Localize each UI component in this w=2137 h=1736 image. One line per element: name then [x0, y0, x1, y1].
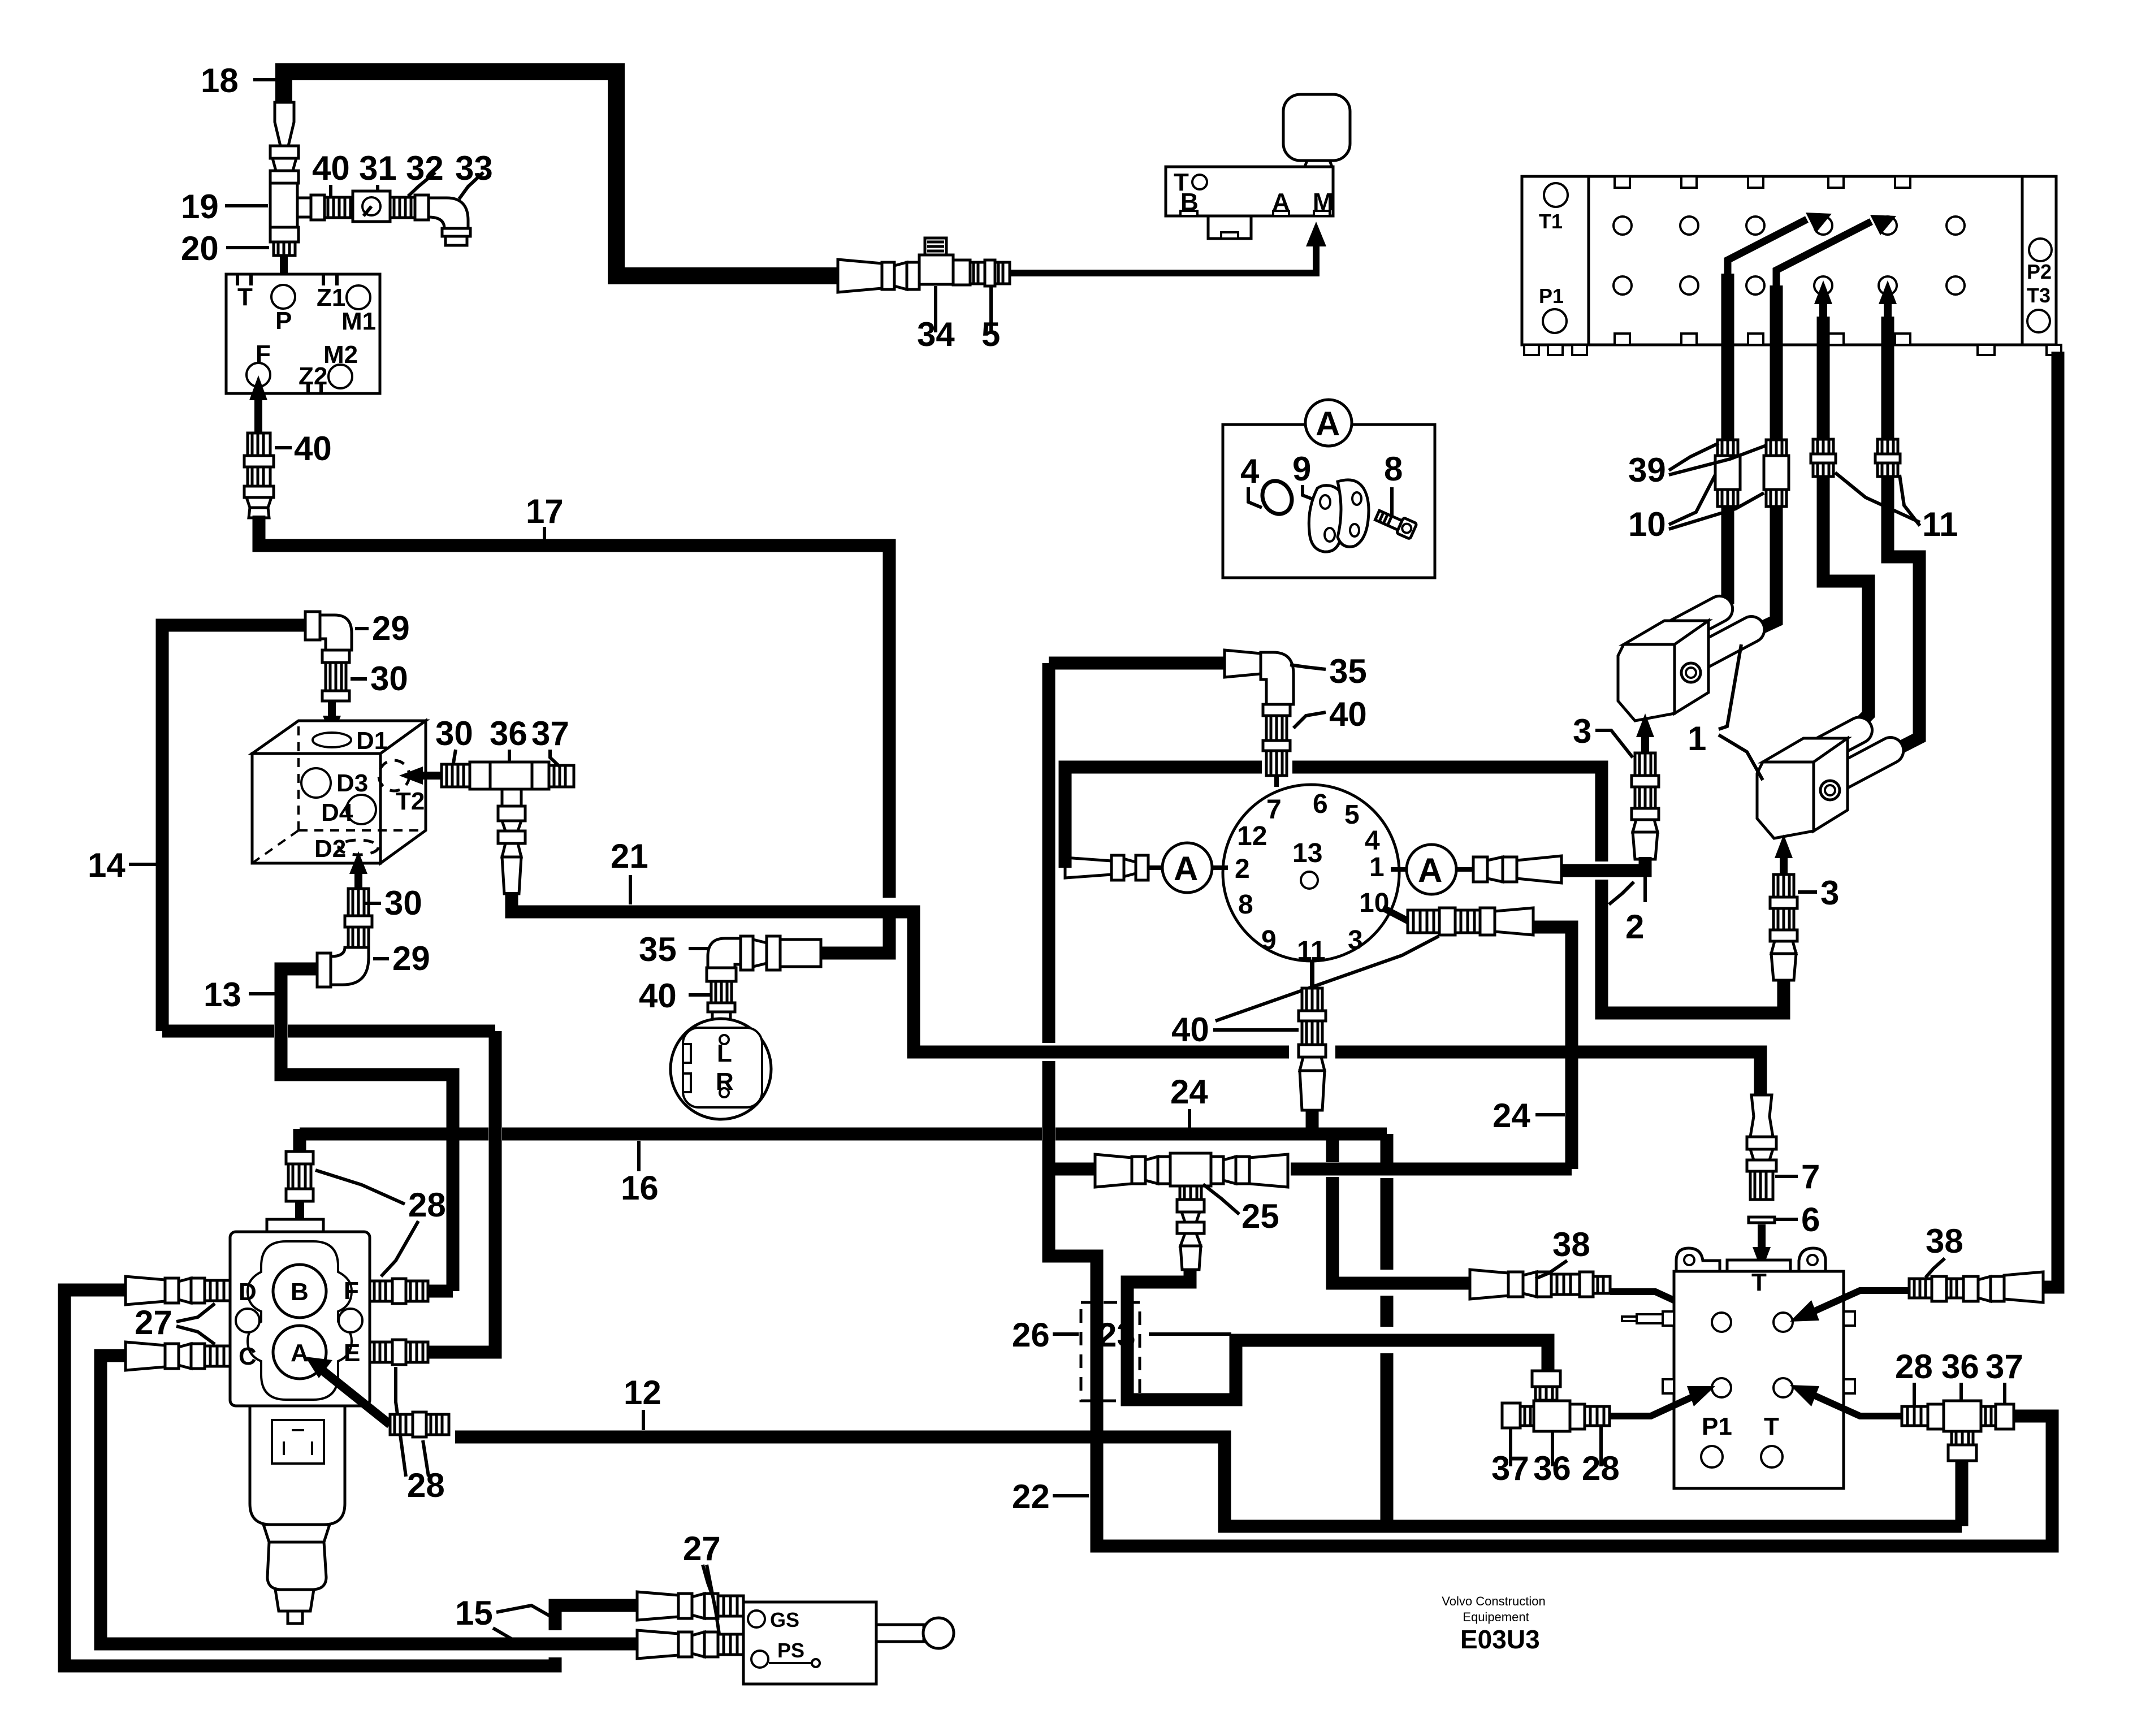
labels 28 36 37 right — [1895, 1348, 1933, 1405]
svg-text:29: 29 — [392, 940, 430, 977]
svg-text:27: 27 — [683, 1530, 721, 1568]
wire hose 22 (port 7 to right tee) — [1042, 663, 1055, 1043]
label 3 motor1 — [1573, 712, 1633, 757]
D port fitting 27 — [126, 1276, 230, 1305]
valve bottom protrusion — [1208, 216, 1251, 239]
label 1 — [1688, 644, 1763, 780]
svg-text:16: 16 — [621, 1169, 659, 1207]
label 11 — [1835, 473, 1958, 543]
svg-text:9: 9 — [1261, 925, 1277, 955]
svg-text:4: 4 — [1365, 826, 1380, 856]
label 38 right — [1926, 1222, 1963, 1278]
svg-text:36: 36 — [1941, 1348, 1979, 1386]
svg-text:15: 15 — [455, 1594, 493, 1632]
svg-text:L: L — [717, 1040, 732, 1067]
label 6 — [1776, 1201, 1820, 1239]
svg-text:31: 31 — [359, 149, 397, 187]
svg-text:M1: M1 — [341, 308, 376, 335]
wire D hose to GS — [64, 1290, 555, 1666]
fitting 40 (nut+thread) — [311, 195, 351, 220]
GS fitting 27 — [637, 1592, 743, 1620]
arrow into D2 — [349, 851, 367, 888]
svg-text:38: 38 — [1926, 1222, 1963, 1260]
A circle left — [1162, 843, 1228, 893]
fitting 38 right — [1909, 1272, 2043, 1302]
fitting 30 below cube — [345, 889, 372, 947]
label 40 lower — [1171, 936, 1439, 1049]
wire hose port10 to junction riser — [1533, 927, 1572, 1169]
svg-text:25: 25 — [1241, 1197, 1279, 1235]
svg-text:R: R — [716, 1068, 734, 1096]
svg-text:3: 3 — [1348, 925, 1363, 955]
svg-text:24: 24 — [1170, 1073, 1208, 1111]
tee 34 — [919, 238, 970, 285]
svg-text:C: C — [239, 1343, 257, 1370]
wire hoses into motor 1 prongs — [1712, 506, 1728, 612]
pilot valve block — [1166, 167, 1334, 216]
fitting 38 left — [1470, 1270, 1610, 1299]
svg-text:D1: D1 — [356, 727, 388, 755]
PS fitting 27 — [637, 1630, 743, 1659]
port 11 fitting chain — [1299, 961, 1326, 1110]
svg-text:T: T — [1751, 1269, 1767, 1296]
wire vertical hose 39b — [1770, 285, 1783, 440]
tee stem fittings — [498, 789, 525, 894]
fitting 11 on third hose — [1811, 439, 1836, 477]
svg-text:28: 28 — [407, 1466, 445, 1504]
svg-text:23: 23 — [1098, 1316, 1136, 1354]
svg-text:E: E — [344, 1339, 360, 1367]
wire thin hose + arrow into upper-right port — [1790, 1291, 1909, 1322]
svg-text:36: 36 — [490, 715, 527, 752]
wire hose 24 horizontal — [1291, 1163, 1572, 1176]
label 24 left — [1170, 1073, 1208, 1131]
labels 34 5 — [917, 286, 955, 353]
arrow into P — [275, 256, 293, 302]
svg-text:A: A — [1316, 405, 1340, 443]
label 22 — [1012, 1478, 1089, 1516]
wire hose 13 stub to top fitting — [293, 1129, 306, 1153]
svg-text:14: 14 — [88, 846, 126, 884]
label 2 — [1609, 875, 1645, 946]
fitting 3 motor 1 — [1632, 753, 1659, 859]
svg-text:10: 10 — [1359, 888, 1389, 918]
wire thin hose + arrow into lower-left port — [1610, 1386, 1715, 1416]
svg-text:40: 40 — [312, 149, 350, 187]
label 24 right — [1493, 1097, 1565, 1135]
svg-text:7: 7 — [1801, 1158, 1820, 1196]
fitting 20 — [270, 227, 299, 256]
svg-text:1: 1 — [1688, 720, 1706, 757]
26 dashed box — [1081, 1302, 1140, 1401]
wire hose 16 (B to port 11 path) — [300, 1128, 447, 1141]
fitting 3 motor 2 — [1770, 875, 1797, 980]
svg-text:T3: T3 — [2027, 284, 2051, 307]
svg-text:P: P — [275, 307, 292, 335]
fitting 10 on first hose — [1715, 440, 1740, 506]
wire arrow diag to port 4 — [1728, 213, 1832, 274]
svg-text:8: 8 — [1384, 450, 1403, 488]
label 26 — [1012, 1316, 1079, 1354]
arrow 6 into T — [1753, 1224, 1771, 1271]
wire thin hose + arrow into lower-right port — [1790, 1385, 1902, 1416]
fitting 5 — [970, 260, 1010, 286]
svg-text:F: F — [344, 1277, 359, 1305]
svg-text:P2: P2 — [2027, 260, 2052, 283]
svg-text:22: 22 — [1012, 1478, 1050, 1516]
svg-text:19: 19 — [181, 188, 219, 226]
svg-text:D: D — [239, 1278, 257, 1306]
label 40 — [1294, 695, 1367, 733]
C port fitting 27 — [126, 1342, 230, 1370]
wire arrow diag to port 5 — [1776, 215, 1896, 285]
elbow 35 + fitting 40 to L/R gauge — [707, 936, 821, 1020]
svg-text:40: 40 — [1329, 695, 1367, 733]
svg-text:35: 35 — [639, 930, 677, 968]
wire thin hose + arrow into upper-left port of valve — [1610, 1292, 1720, 1322]
right tee 28/36/37 — [1902, 1401, 2014, 1461]
label 18 — [201, 62, 283, 99]
fitting 10 on second hose — [1764, 440, 1789, 506]
svg-text:D2: D2 — [314, 835, 346, 863]
fitting 30 — [442, 762, 490, 789]
svg-text:28: 28 — [408, 1186, 446, 1224]
svg-text:Volvo Construction: Volvo Construction — [1442, 1594, 1545, 1608]
wire arrow up into lower port 5 — [1879, 280, 1897, 557]
svg-text:30: 30 — [384, 884, 422, 922]
label 39 — [1628, 443, 1766, 489]
L/R steering gauge — [670, 1019, 771, 1119]
svg-text:2: 2 — [1235, 854, 1250, 884]
svg-text:4: 4 — [1240, 452, 1260, 490]
wire E hose riser — [428, 1031, 495, 1352]
svg-text:13: 13 — [1292, 838, 1322, 868]
wire hose into motor 2 prong 1 — [1823, 477, 1868, 726]
svg-text:10: 10 — [1628, 505, 1666, 543]
tee 36 — [490, 762, 532, 789]
label 28 top — [315, 1170, 446, 1276]
svg-text:Equipement: Equipement — [1463, 1610, 1529, 1624]
svg-text:2: 2 — [1625, 908, 1644, 946]
svg-text:30: 30 — [370, 660, 408, 698]
fitting 40 below F — [244, 433, 274, 518]
motor 2 — [1757, 713, 1908, 838]
svg-text:7: 7 — [1266, 795, 1282, 825]
A circle right — [1391, 845, 1456, 894]
labels 37 36 28 left — [1491, 1429, 1529, 1487]
svg-text:26: 26 — [1012, 1316, 1050, 1354]
wire hose 12 — [455, 1437, 1962, 1526]
svg-text:D3: D3 — [336, 769, 368, 797]
arrow into M — [1306, 222, 1326, 246]
hose-end into tee 34 — [838, 259, 919, 292]
svg-text:29: 29 — [372, 609, 410, 647]
label 12 — [624, 1374, 661, 1430]
wire hose 17 — [259, 516, 889, 898]
svg-text:38: 38 — [1552, 1226, 1590, 1263]
tee 19 — [270, 183, 311, 227]
elbow 29 below — [317, 947, 369, 987]
manifold block — [1522, 176, 2061, 355]
wire hose A-right to motor1 fitting — [1561, 857, 1645, 871]
label 40 — [639, 977, 710, 1015]
arrow into A + diagonal fitting — [305, 1357, 390, 1425]
svg-text:24: 24 — [1493, 1097, 1530, 1135]
svg-text:40: 40 — [294, 430, 332, 467]
label 25 — [1203, 1184, 1279, 1235]
label 20 — [181, 230, 269, 267]
left tee 37/36/28 — [1502, 1371, 1610, 1431]
arrow into F — [249, 375, 267, 435]
tee 25 — [1095, 1153, 1288, 1270]
svg-text:20: 20 — [181, 230, 219, 267]
F port fitting 28 — [370, 1279, 428, 1304]
wire hose from 38-right up along right edge — [2043, 352, 2058, 1287]
fitting 7 chain into T of block — [1747, 1095, 1776, 1200]
valve lower body — [250, 1406, 345, 1624]
wire hose 16 vertical to 24 run — [1381, 1134, 1394, 1164]
label 27 — [135, 1304, 215, 1344]
svg-text:37: 37 — [1985, 1348, 2023, 1386]
labels 40 31 32 33 — [312, 149, 350, 196]
label 15 — [455, 1594, 551, 1644]
svg-text:6: 6 — [1801, 1201, 1820, 1239]
svg-text:9: 9 — [1292, 450, 1311, 488]
svg-text:T1: T1 — [1539, 210, 1563, 233]
wire hose 2 (port 2 - motor 2) — [1065, 767, 1262, 868]
wire tee stem hose — [1956, 1461, 1969, 1526]
svg-text:3: 3 — [1573, 712, 1591, 750]
wire hose 21 — [512, 892, 1289, 1052]
label 27 pedal — [683, 1530, 721, 1634]
motor 1 — [1618, 591, 1769, 721]
wire stub port 7 — [1274, 774, 1279, 787]
wire thin hose 5 to M — [1010, 246, 1316, 273]
E port fitting 28 — [370, 1340, 428, 1365]
label 14 — [88, 846, 160, 884]
label 35 — [639, 930, 710, 968]
svg-text:30: 30 — [435, 715, 473, 752]
svg-text:12: 12 — [1237, 821, 1267, 851]
svg-text:Z2: Z2 — [299, 362, 327, 390]
svg-text:1: 1 — [1369, 852, 1385, 882]
wire vertical hose 39a — [1721, 274, 1734, 440]
svg-text:M2: M2 — [323, 341, 358, 369]
svg-text:B: B — [291, 1278, 309, 1306]
svg-text:T: T — [1764, 1413, 1779, 1440]
top fitting 28 — [286, 1151, 313, 1201]
labels 29 30 — [355, 609, 410, 647]
arrow into B — [289, 1201, 310, 1275]
elbow 33 — [429, 198, 470, 245]
svg-text:F: F — [256, 340, 271, 368]
label 16 — [621, 1141, 659, 1207]
label 10 — [1628, 475, 1764, 543]
hose 22 upper run with elbow 35/40 into port 7 — [1049, 657, 1225, 670]
cube block — [252, 721, 426, 863]
fitting chain A right to motor1 — [1456, 856, 1561, 883]
wire arrow up into lower port 4 — [1814, 280, 1832, 581]
hose-end fitting above tee 19 — [270, 102, 299, 183]
svg-text:GS: GS — [770, 1608, 799, 1631]
label 28 lower — [396, 1367, 445, 1504]
svg-text:A: A — [1418, 851, 1442, 889]
svg-text:37: 37 — [531, 715, 569, 752]
svg-text:5: 5 — [1344, 800, 1360, 830]
svg-text:28: 28 — [1895, 1348, 1933, 1386]
svg-text:P1: P1 — [1702, 1413, 1732, 1440]
wire hose into motor 2 prong 2 — [1888, 477, 1919, 751]
arrow into D1 — [323, 701, 341, 738]
fitting 37 — [532, 762, 574, 789]
svg-text:D4: D4 — [321, 799, 353, 826]
label 19 — [181, 188, 268, 226]
wire hose 14 — [162, 625, 305, 1031]
svg-text:6: 6 — [1313, 789, 1328, 819]
fitting 11 on fourth hose — [1875, 439, 1900, 477]
svg-text:17: 17 — [526, 492, 564, 530]
svg-text:13: 13 — [204, 976, 241, 1014]
labels 30 36 37 — [435, 715, 473, 763]
valve block — [230, 1219, 370, 1406]
svg-text:21: 21 — [611, 837, 648, 875]
wire port11 chain to hose16 — [1306, 1110, 1319, 1134]
svg-text:PS: PS — [777, 1639, 804, 1662]
labels 30 29 — [365, 884, 422, 922]
arrow into motor 1 — [1636, 713, 1654, 752]
svg-text:27: 27 — [135, 1304, 172, 1341]
svg-text:E03U3: E03U3 — [1460, 1625, 1540, 1654]
svg-text:40: 40 — [1171, 1011, 1209, 1049]
svg-text:39: 39 — [1628, 451, 1666, 489]
svg-text:3: 3 — [1820, 874, 1839, 912]
svg-text:P1: P1 — [1539, 284, 1564, 308]
arrow into motor 2 — [1775, 834, 1793, 873]
arrow into T2 — [399, 767, 442, 785]
svg-text:40: 40 — [639, 977, 677, 1015]
svg-text:18: 18 — [201, 62, 239, 99]
label 3 motor2 — [1798, 874, 1839, 912]
label 38 left — [1535, 1226, 1590, 1279]
swivel circle — [1223, 785, 1399, 966]
check valve 31 — [353, 191, 390, 222]
wire hose 23 (tee25 stem to left tee) — [1127, 1270, 1548, 1400]
fitting chain port2 to A left — [1065, 855, 1162, 880]
label 21 — [611, 837, 648, 904]
wire hose 13 — [281, 969, 453, 1291]
wire hose 18 — [284, 72, 838, 276]
label 23 — [1098, 1316, 1231, 1354]
svg-text:11: 11 — [1922, 505, 1958, 543]
port 10 fitting chain — [1383, 908, 1533, 935]
valve knob — [1283, 94, 1350, 167]
svg-text:T: T — [237, 283, 253, 311]
fitting 32 — [390, 195, 429, 220]
wire tee25 left arm to hose22 vertical — [1050, 1163, 1095, 1176]
label 17 — [526, 492, 564, 543]
wire C hose to PS — [101, 1356, 637, 1644]
elbow + fitting 40 above port 7 — [1225, 650, 1294, 776]
label 40 — [275, 430, 332, 467]
pump block — [226, 274, 380, 393]
washer 6 — [1749, 1217, 1775, 1223]
label 13 — [204, 976, 276, 1014]
svg-text:8: 8 — [1238, 890, 1253, 920]
svg-text:35: 35 — [1329, 652, 1367, 690]
svg-text:12: 12 — [624, 1374, 661, 1412]
label 7 — [1775, 1158, 1820, 1196]
svg-text:A: A — [1174, 850, 1198, 888]
elbow 29 above cube — [305, 612, 352, 663]
label 35 — [1290, 652, 1367, 690]
fitting 30 — [322, 663, 349, 701]
svg-text:A: A — [291, 1339, 309, 1367]
svg-text:T2: T2 — [396, 787, 425, 815]
wire riser to 38-left fitting — [1326, 1134, 1339, 1162]
